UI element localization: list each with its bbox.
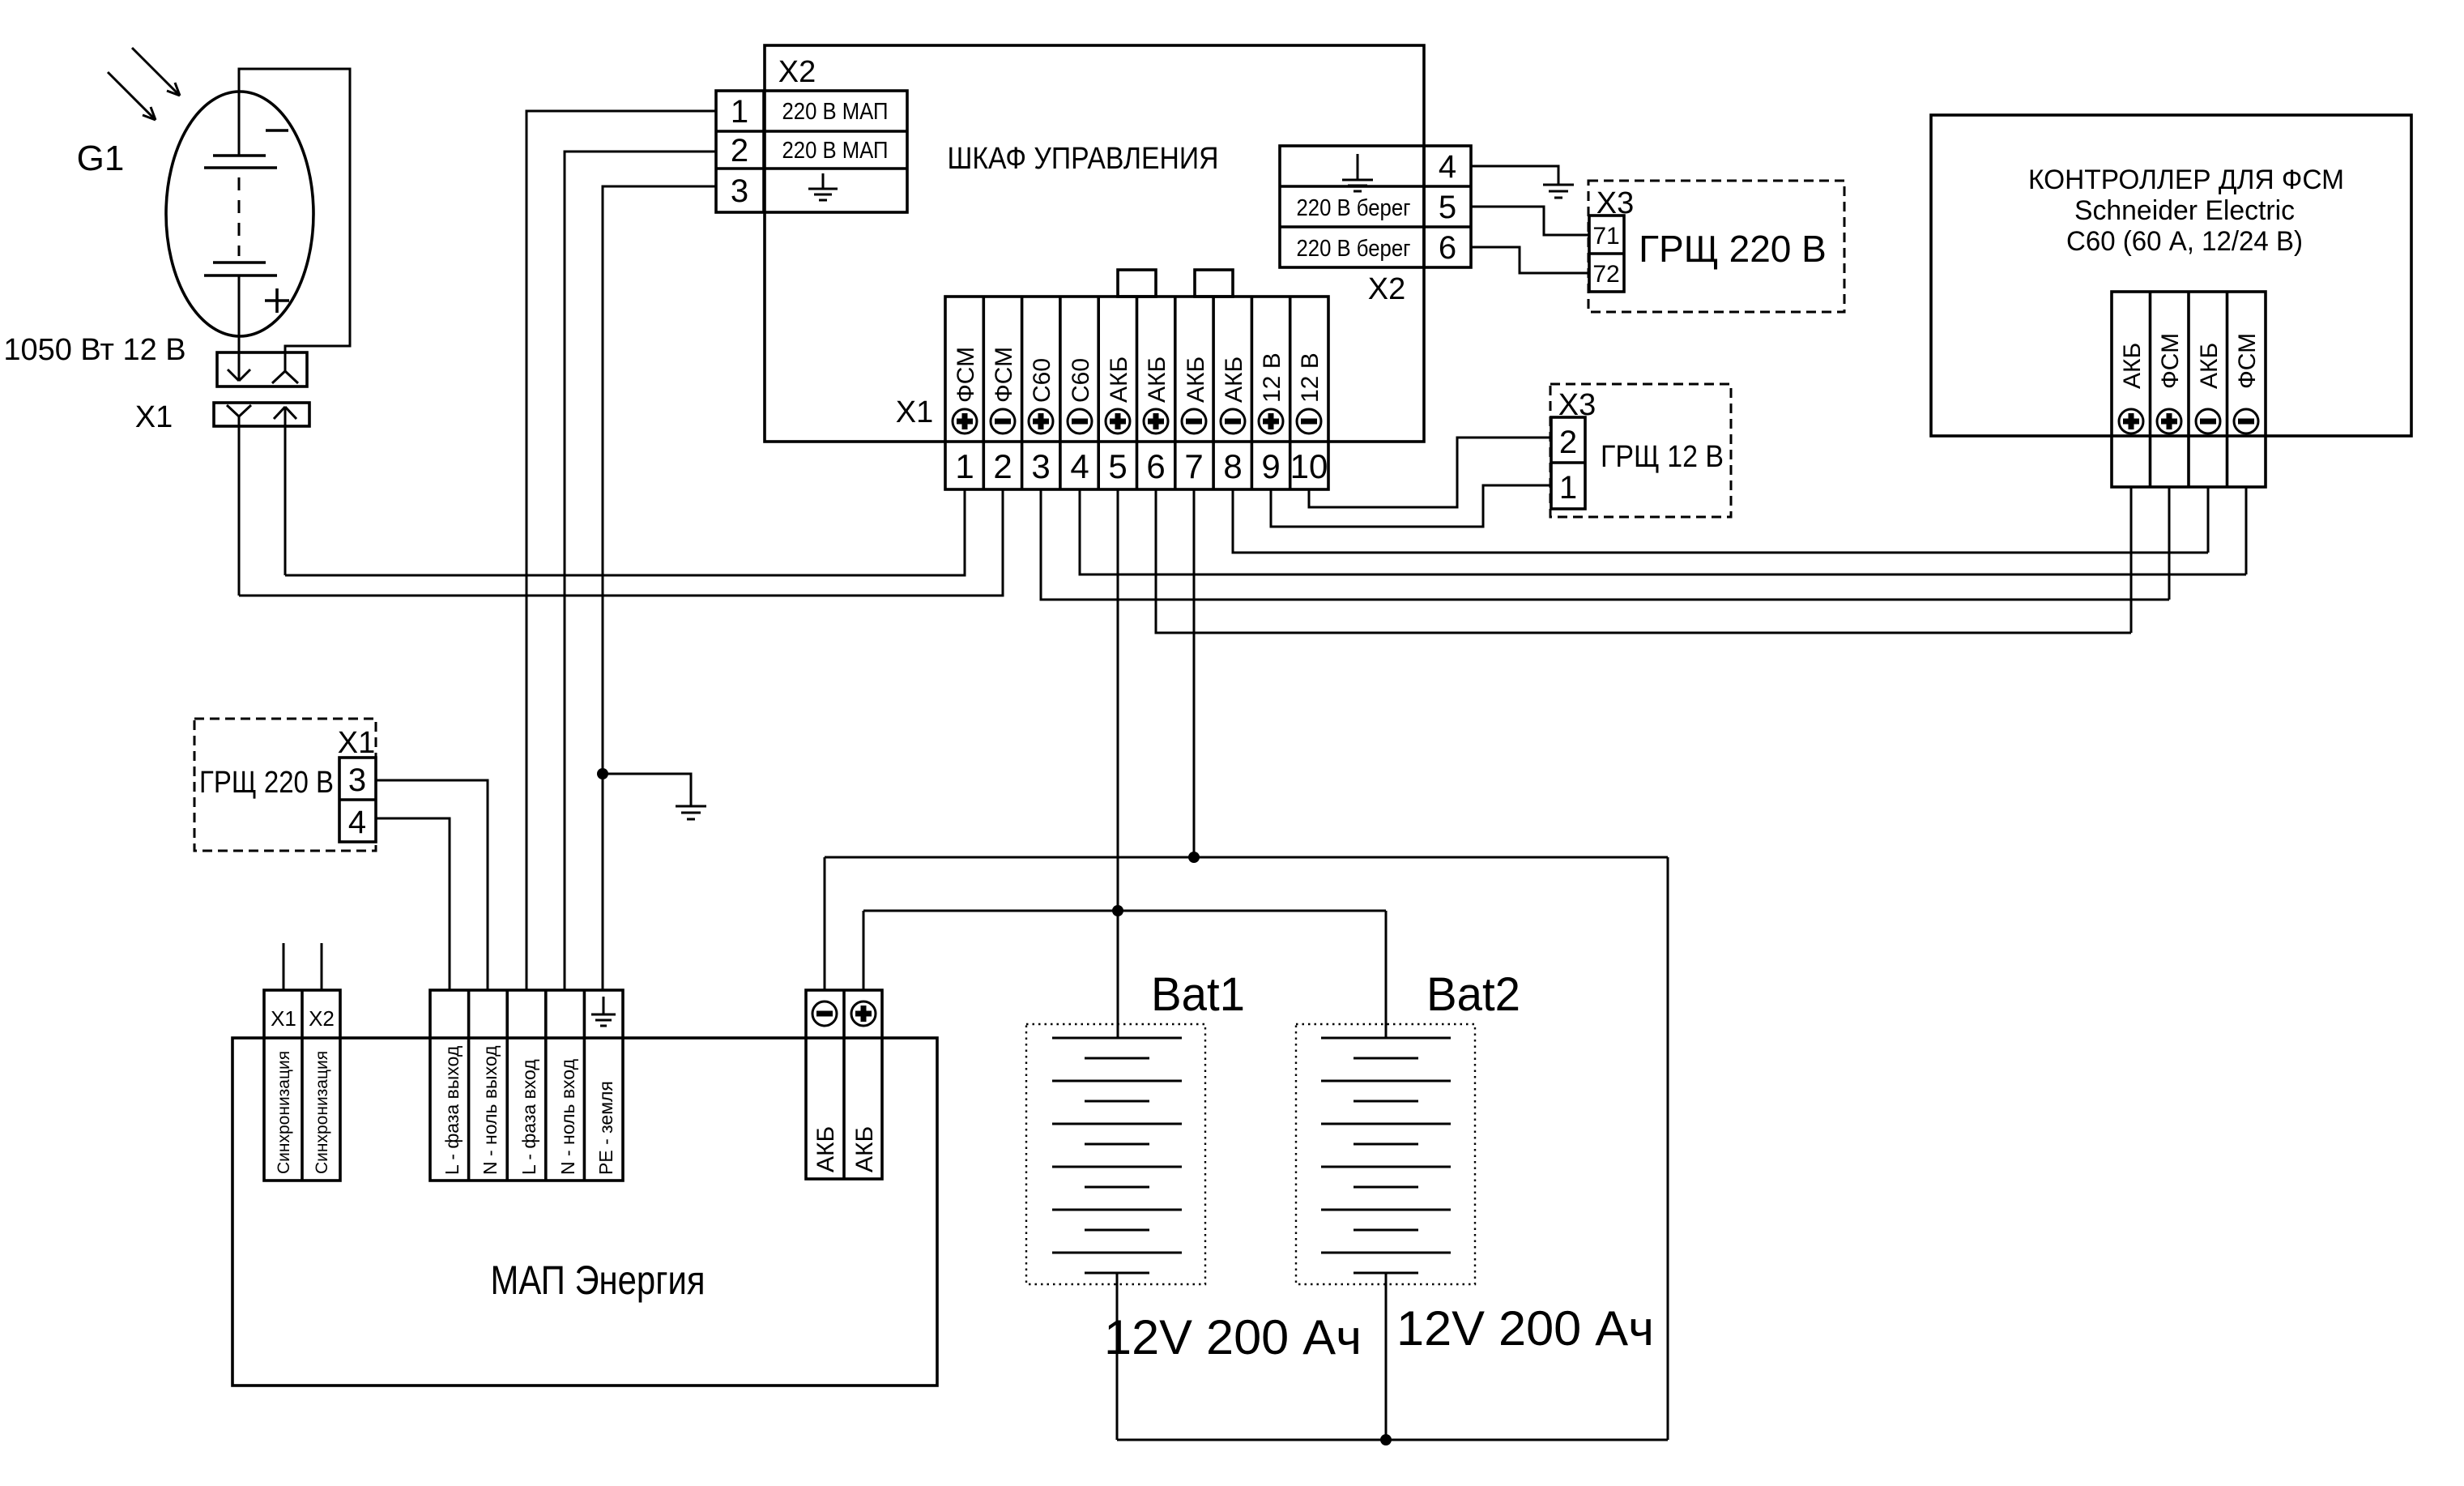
svg-text:1: 1 [731,94,748,130]
sun ray arrow 1 [132,48,180,96]
MAP AC connector 5 columns [430,990,623,1181]
G1 plus sign [265,288,289,313]
svg-text:72: 72 [1592,261,1619,288]
connector X3 cells 2/1 [1551,417,1585,509]
svg-text:2: 2 [1559,425,1577,460]
battery Bat2 enclosure (dotted) [1296,1024,1475,1284]
svg-text:G1: G1 [77,139,125,178]
wire GRSh220 pin4 to MAP L output [376,818,450,990]
svg-text:X2: X2 [778,55,816,89]
svg-text:L - фаза вход: L - фаза вход [518,1059,539,1175]
svg-text:X1: X1 [271,1006,296,1031]
battery Bat2 plates [1321,1038,1451,1273]
svg-text:АКБ: АКБ [1144,357,1170,403]
svg-text:4: 4 [1070,447,1089,485]
svg-text:Schneider Electric: Schneider Electric [2074,195,2295,226]
svg-text:3: 3 [1031,447,1050,485]
wire pin4 to earth [1471,166,1558,185]
plug pin 2 fork [272,371,298,383]
terminal 6 polarity sign [1144,409,1168,433]
connector X1 cells 3/4 [339,758,376,842]
svg-text:АКБ: АКБ [851,1126,878,1172]
G1 battery cell 1 short bar [213,154,266,157]
junction PE branch [597,768,608,779]
svg-text:ФСМ: ФСМ [2234,333,2261,389]
ground symbol (PE earth) [676,806,706,819]
MAP Energia inverter box [232,1038,937,1386]
svg-text:71: 71 [1592,223,1619,250]
MAP battery connector AKB [806,990,882,1179]
wire PE branch to ground [603,774,691,806]
svg-text:6: 6 [1439,230,1456,266]
ground symbol in PE column [591,997,616,1026]
wire pin5 to GRSh220 71 [1471,207,1589,235]
svg-text:АКБ: АКБ [1106,357,1132,403]
solar generator G1 body (ellipse) [166,92,313,336]
sun ray arrow 2 [108,72,156,120]
svg-text:220 В МАП: 220 В МАП [782,99,889,125]
wire X2 pin3 PE down [603,186,716,990]
wire Bat2 bottom down [1385,1273,1388,1440]
svg-text:МАП Энергия: МАП Энергия [491,1258,706,1303]
wire terminal 6 AKB+ to controller AKB+ [1156,489,2131,633]
wire controller AKB+ down [2130,487,2133,633]
svg-text:Синхронизация: Синхронизация [313,1051,331,1174]
wire controller AKB- down [2207,487,2210,553]
svg-text:5: 5 [1108,447,1127,485]
svg-text:L - фаза выход: L - фаза выход [441,1045,463,1175]
wire G1 minus loop to connector pin 2 [239,69,350,371]
junction Bat2 bottom [1380,1434,1392,1445]
G1 battery cell 2 long bar [204,274,277,277]
ground symbol after pin4 [1543,185,1574,198]
wire terminal 7 AKB- down to junction [1193,489,1196,857]
controller terminal 4 polarity sign [2234,409,2258,433]
junction terminal7 AKB- [1188,852,1200,863]
svg-text:ШКАФ УПРАВЛЕНИЯ: ШКАФ УПРАВЛЕНИЯ [948,142,1219,176]
socket pin 2 arrow head [274,407,296,419]
svg-text:N - ноль выход: N - ноль выход [480,1045,501,1175]
svg-text:С60: С60 [1068,358,1094,403]
wire solar minus to cabinet terminal 2 [239,489,1003,596]
terminal 8 polarity sign [1221,409,1245,433]
svg-text:АКБ: АКБ [1183,357,1209,403]
wire battery minus bottom bus [1117,1439,1668,1441]
svg-text:3: 3 [348,762,366,798]
wire G1 plus electrode down to connector pin 1 [238,275,241,381]
svg-text:220 В МАП: 220 В МАП [782,138,889,164]
ground symbol in pin4 cell [1342,154,1373,191]
cabinet connector X2 cells 4-6 [1280,146,1471,267]
terminal 5 polarity sign [1106,409,1130,433]
svg-text:ГРЩ 12 В: ГРЩ 12 В [1601,440,1724,474]
wire AKB+ down to Bat2 [1385,911,1388,1038]
MAP AKB plus sign [851,1001,876,1026]
svg-text:Синхронизация: Синхронизация [275,1051,293,1174]
wire AKB- bus right down [1667,857,1669,1440]
terminal strip X1 body (10 cells + number row) [945,297,1328,489]
svg-text:2: 2 [993,447,1012,485]
svg-text:1050 Вт 12 В: 1050 Вт 12 В [3,333,185,367]
wire terminal 3 C60+ to controller FSM+ [1041,489,2169,600]
plug pin 1 arrow head [228,369,250,381]
G1 battery cell 1 long bar [204,166,277,169]
svg-text:12V 200 Ач: 12V 200 Ач [1104,1310,1362,1364]
GRSh 12V board (dashed) [1550,384,1731,517]
svg-text:PE - земля: PE - земля [595,1081,616,1175]
wire Bat1 bottom down [1116,1273,1119,1440]
terminal 10 polarity sign [1297,409,1321,433]
svg-text:X1: X1 [896,395,933,429]
svg-text:Bat2: Bat2 [1426,968,1520,1021]
svg-text:1: 1 [955,447,974,485]
terminal 1 polarity sign [953,409,977,433]
svg-text:N - ноль вход: N - ноль вход [557,1058,578,1175]
svg-text:3: 3 [731,173,748,209]
jumper bump terminals 5-6 [1118,270,1156,297]
controller terminal 2 polarity sign [2157,409,2181,433]
controller terminal 3 polarity sign [2196,409,2220,433]
control cabinet box [765,45,1424,442]
svg-text:4: 4 [348,805,366,840]
svg-text:12 В: 12 В [1259,352,1285,403]
controller terminal 1 polarity sign [2119,409,2143,433]
svg-text:9: 9 [1261,447,1280,485]
G1 internal dashed line [238,177,241,256]
terminal 9 polarity sign [1259,409,1283,433]
terminal 3 polarity sign [1029,409,1053,433]
svg-text:С60: С60 [1029,358,1055,403]
GRSh 220V shore board (dashed) [1588,181,1844,312]
svg-text:1: 1 [1559,470,1577,506]
jumper bump terminals 7-8 [1195,270,1233,297]
wire MAP AKB- riser [824,857,826,990]
svg-text:АКБ: АКБ [2119,343,2146,389]
terminal 4 polarity sign [1068,409,1092,433]
battery Bat1 enclosure (dotted) [1026,1024,1205,1284]
wire terminal 8 AKB- to controller AKB- [1233,489,2208,553]
sync connector X1/X2 box [264,990,340,1181]
wire controller FSM+ down [2168,487,2171,600]
PV controller box [1931,115,2411,436]
cabinet connector X2 cells 1-3 [716,91,907,212]
wire terminal 5 AKB+ down to Bat1 [1117,489,1119,1038]
wire pin6 to GRSh220 72 [1471,247,1589,273]
G1 minus sign [266,129,288,132]
svg-text:ФСМ: ФСМ [953,347,979,403]
wire G1 top electrode [238,92,241,156]
svg-text:ФСМ: ФСМ [991,347,1017,403]
svg-text:7: 7 [1184,447,1203,485]
svg-text:12 В: 12 В [1297,352,1324,403]
svg-text:ФСМ: ФСМ [2157,333,2184,389]
svg-text:6: 6 [1146,447,1165,485]
svg-text:АКБ: АКБ [2196,343,2223,389]
svg-text:12V 200 Ач: 12V 200 Ач [1396,1301,1654,1356]
connector X3 cells 71/72 [1589,216,1624,292]
svg-text:X2: X2 [1368,272,1405,306]
terminal 2 polarity sign [991,409,1015,433]
svg-text:X1: X1 [135,400,173,434]
svg-text:Bat1: Bat1 [1151,968,1245,1021]
wire MAP AKB+ riser [863,911,865,990]
sync X2 stub wire [321,943,323,990]
G1-side connector half (plug) box [217,352,307,386]
junction terminal5 AKB+ [1112,905,1123,916]
svg-text:ГРЩ 220 В: ГРЩ 220 В [199,766,334,800]
wire terminal 9 12V+ to GRSh12V pin1 [1271,485,1551,527]
svg-text:С60 (60 А, 12/24 В): С60 (60 А, 12/24 В) [2066,226,2303,257]
wire X1 pin2 down [284,407,287,575]
wire solar plus to cabinet terminal 1 [285,489,965,575]
svg-text:2: 2 [731,133,748,169]
svg-text:220 В берег: 220 В берег [1297,236,1411,262]
svg-text:8: 8 [1223,447,1242,485]
G1 battery cell 2 short bar [213,261,266,264]
MAP AKB minus sign [812,1001,837,1026]
svg-text:10: 10 [1290,447,1328,485]
wire controller FSM- down [2245,487,2248,574]
svg-text:X2: X2 [309,1006,335,1031]
svg-text:КОНТРОЛЛЕР ДЛЯ ФСМ: КОНТРОЛЛЕР ДЛЯ ФСМ [2028,164,2344,195]
controller terminal strip body [2112,292,2266,487]
wire terminal 10 12V- to GRSh12V pin2 [1309,438,1551,507]
svg-text:АКБ: АКБ [1221,357,1247,403]
svg-text:4: 4 [1439,149,1456,185]
wire X2 pin1 to MAP L input [526,111,716,990]
battery Bat1 plates [1052,1038,1182,1273]
ground symbol in X2 pin3 cell [808,173,838,200]
sync X1 stub wire [283,943,285,990]
connector X1 socket half box [214,403,309,426]
wire terminal 4 C60- to controller FSM- [1080,489,2246,574]
wire X1 pin1 down [238,416,241,596]
wire AKB+ bus horizontal [863,910,1386,912]
svg-text:5: 5 [1439,190,1456,225]
svg-text:220 В берег: 220 В берег [1297,195,1411,221]
svg-text:ГРЩ 220 В: ГРЩ 220 В [1639,228,1827,270]
socket pin 1 fork [227,405,251,416]
terminal 7 polarity sign [1182,409,1206,433]
GRSh 220V distribution board (dashed) [194,719,376,851]
svg-text:X1: X1 [338,726,375,760]
wire X2 pin2 to MAP N input [565,152,716,990]
wire GRSh220 pin3 to MAP N output [376,780,488,990]
wire AKB- bus horizontal [825,856,1668,859]
svg-text:АКБ: АКБ [812,1126,839,1172]
